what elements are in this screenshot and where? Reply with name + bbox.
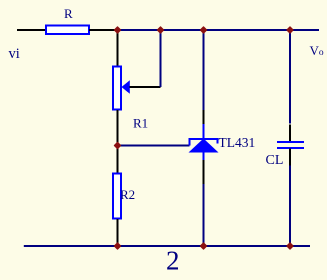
capacitor CL top plate [277, 141, 304, 143]
junction top rail wiper branch [158, 27, 164, 33]
wire wiper vertical to top rail [160, 30, 162, 87]
junction bottom rail TL431 branch [201, 243, 207, 249]
svg-text:CL: CL [266, 153, 284, 168]
wire TL431 anode stub [203, 153, 205, 161]
wire top rail [118, 29, 320, 31]
resistor R [46, 26, 89, 35]
wire TL431 anode to bottom rail [203, 184, 205, 246]
wire capacitor branch from top rail [289, 30, 291, 124]
wire wiper horizontal [130, 86, 161, 88]
wire R2 bottom pin [117, 219, 119, 246]
svg-text:R: R [64, 6, 73, 21]
wire capacitor bottom pin [289, 149, 291, 166]
wire pot bottom to node A [117, 110, 119, 174]
node vi input lead wire [17, 29, 46, 31]
svg-text:2: 2 [166, 246, 180, 276]
op-amp U1 TL431 triangle [189, 139, 219, 153]
wire TL431 cathode from top rail [203, 30, 205, 110]
junction top rail capacitor branch [287, 27, 293, 33]
wire resistor R right lead [89, 29, 118, 31]
svg-text:R1: R1 [133, 116, 148, 131]
wire TL431 cathode stub [203, 124, 205, 139]
junction bottom rail capacitor branch [287, 243, 293, 249]
junction bottom rail R2 branch [115, 243, 121, 249]
op-amp U1 TL431 cathode bar [190, 139, 218, 146]
wire TL431 cathode pin [203, 110, 205, 124]
svg-text:vi: vi [9, 46, 20, 62]
wire reference node A to TL431 [118, 145, 190, 147]
junction node A [115, 143, 121, 149]
wire bottom rail [24, 245, 310, 247]
svg-text:TL431: TL431 [219, 135, 256, 150]
capacitor CL bottom plate [277, 147, 304, 149]
wire TL431 anode pin [203, 160, 205, 184]
wire capacitor top pin [289, 125, 291, 142]
potentiometer R1 wiper arrow [122, 80, 130, 94]
svg-text:R2: R2 [120, 187, 135, 202]
junction top rail pot branch [115, 27, 121, 33]
wire pot top pin [117, 29, 119, 66]
potentiometer R1 body [113, 67, 121, 110]
wire capacitor to bottom rail [289, 166, 291, 247]
resistor R2 [113, 174, 121, 219]
junction top rail TL431 branch [201, 27, 207, 33]
